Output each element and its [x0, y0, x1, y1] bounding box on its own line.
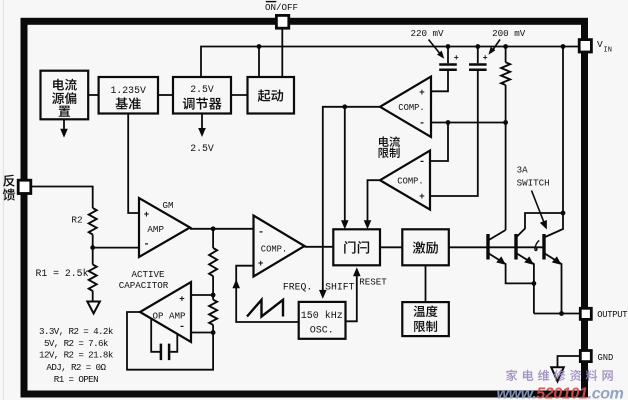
- svg-text:GND: GND: [598, 353, 614, 363]
- arrowhead bias down: [60, 129, 68, 138]
- svg-text:RESET: RESET: [359, 277, 387, 288]
- pin square GND: [580, 351, 591, 362]
- wire Vin rail: [201, 47, 584, 78]
- wire cap2 to comp2 + input: [430, 71, 478, 196]
- wire regulator to startup: [231, 94, 248, 96]
- junction node GM output: [211, 226, 216, 231]
- svg-text:2.5V: 2.5V: [190, 143, 214, 154]
- pin square OUTPUT: [580, 308, 591, 319]
- svg-text:-: -: [258, 227, 264, 239]
- block box: 150 kHz oscillator: [299, 302, 346, 339]
- junction node sense line resistor bottom: [503, 120, 508, 125]
- pin square feedback: [18, 180, 31, 193]
- wire Q3 emitter: [544, 253, 562, 314]
- svg-text:OSC.: OSC.: [310, 326, 334, 337]
- capacitor active feedback: [161, 344, 169, 361]
- junction node R2 R1 divider: [90, 245, 95, 250]
- svg-text:+: +: [419, 87, 425, 98]
- op-amp main comparator triangle: [254, 216, 305, 277]
- op-amp GM amplifier triangle: [139, 198, 190, 257]
- svg-text:R2: R2: [71, 215, 82, 226]
- svg-text:COMP.: COMP.: [397, 177, 423, 187]
- sawtooth waveform: [247, 300, 283, 317]
- svg-text:ACTIVE: ACTIVE: [131, 269, 165, 280]
- junction node rail switch collector: [561, 44, 566, 49]
- svg-text:-: -: [179, 321, 185, 333]
- junction node sense line comp2 branch: [446, 120, 451, 125]
- wire op-amp - input: [191, 332, 213, 334]
- label arrow line 220mV: [429, 40, 442, 56]
- junction node Q1 Q2 emitters: [532, 281, 537, 286]
- arrowhead 200mV label: [488, 47, 495, 55]
- svg-text:COMP.: COMP.: [261, 244, 287, 254]
- wire active capacitor left lead: [151, 319, 161, 352]
- svg-text:SWITCH: SWITCH: [517, 178, 550, 189]
- svg-text:SHIFT: SHIFT: [325, 282, 355, 293]
- arrowhead 2.5V down: [198, 128, 206, 137]
- arrowhead Q3 emitter: [552, 256, 562, 265]
- svg-text:220 mV: 220 mV: [410, 28, 444, 39]
- wire bias to reference: [88, 94, 98, 96]
- svg-text:3.3V, R2 = 4.2k: 3.3V, R2 = 4.2k: [39, 326, 114, 337]
- svg-text:+: +: [144, 209, 150, 220]
- junction node switch collectors: [561, 211, 566, 216]
- arrowhead Q2 emitter: [524, 256, 534, 265]
- svg-text:R1 = 2.5k: R1 = 2.5k: [36, 268, 89, 279]
- wire Q2 collector: [516, 213, 563, 238]
- block box: thermal limit: [402, 302, 449, 336]
- arrowhead 220mV label: [437, 51, 444, 59]
- transistor Q1 base bar: [486, 234, 489, 260]
- arrowhead comp2 to latch: [364, 220, 372, 229]
- svg-text:150 kHz: 150 kHz: [301, 310, 343, 322]
- wire Q2 emitter: [516, 253, 534, 314]
- svg-text:CAPACITOR: CAPACITOR: [119, 280, 169, 291]
- svg-text:+: +: [258, 258, 264, 269]
- block box: latch: [333, 229, 380, 265]
- svg-text:GM: GM: [162, 200, 173, 211]
- wire Q3 collector and rail connection: [544, 47, 563, 238]
- block box: 2.5V regulator: [173, 77, 231, 114]
- svg-text:+: +: [419, 191, 425, 202]
- capacitor offset 200mV: [469, 65, 487, 70]
- wire rail to startup: [258, 47, 260, 78]
- svg-text:-: -: [143, 239, 149, 251]
- wire GND pin to ground symbol: [558, 356, 581, 367]
- svg-text:-: -: [419, 118, 425, 130]
- arrowhead freq shift into oscillator: [319, 290, 327, 299]
- svg-text:激励: 激励: [412, 237, 438, 256]
- svg-text:限制: 限制: [413, 317, 438, 335]
- resistor R1: [89, 265, 97, 291]
- svg-text:限制: 限制: [378, 145, 401, 161]
- junction node op-amp - resistor chain: [211, 330, 216, 335]
- wire oscillator to main comparator + input: [236, 266, 299, 322]
- wire oscillator reset to latch: [346, 271, 357, 321]
- wire switch emitters to output pin: [534, 313, 580, 315]
- wire op-amp + input: [191, 294, 213, 296]
- junction node rail cap2: [475, 44, 480, 49]
- wire driver to switch bases: [449, 246, 544, 248]
- svg-text:+: +: [483, 53, 488, 63]
- transistor Q3 base bar: [542, 234, 545, 260]
- wire comp2 output to latch: [368, 180, 381, 225]
- wire GM output to main comparator: [190, 228, 254, 230]
- arrowhead 3A switch label: [540, 220, 547, 230]
- svg-text:FREQ.: FREQ.: [283, 282, 312, 293]
- wire bias arrow stem: [63, 119, 65, 131]
- svg-text:200 mV: 200 mV: [492, 28, 526, 39]
- svg-text:www.520101.com: www.520101.com: [497, 385, 624, 400]
- open arrowhead below R1: [87, 302, 100, 314]
- junction node rail sense resistor: [503, 44, 508, 49]
- svg-text:ADJ, R2 = 0Ω: ADJ, R2 = 0Ω: [46, 362, 106, 373]
- svg-text:OUTPUT: OUTPUT: [597, 310, 627, 320]
- transistor Q2 base bar: [514, 234, 517, 260]
- wire sense resistor to Q1 collector: [505, 85, 507, 230]
- wire feedback pin to divider: [31, 187, 93, 209]
- resistor compensation upper: [209, 248, 217, 276]
- junction node op-amp + resistor chain: [211, 293, 216, 298]
- svg-text:家电维修资料网: 家电维修资料网: [506, 366, 618, 384]
- wire latch to driver: [380, 246, 402, 248]
- wire driver to thermal limit: [425, 265, 427, 302]
- resistor compensation lower: [209, 300, 217, 325]
- pin square ON/OFF: [276, 15, 288, 28]
- junction node Q3 emitter output: [559, 311, 564, 316]
- block box: driver: [402, 229, 449, 265]
- wire cap1 to comp1 + input: [431, 71, 448, 91]
- wire R2 to R1 junction and GM - input: [93, 235, 139, 265]
- wire comp2 - input branch: [430, 123, 448, 162]
- svg-text:馈: 馈: [2, 184, 15, 203]
- svg-text:调节器: 调节器: [182, 94, 222, 113]
- wire reference to GM amp + input: [128, 114, 139, 214]
- transistor continuation squiggle: [535, 240, 539, 250]
- arrowhead comp1 to latch: [341, 220, 349, 229]
- block box: 1.235V reference: [99, 77, 158, 114]
- wire reference to regulator: [158, 94, 173, 96]
- wire ON/OFF pin to startup: [281, 28, 283, 77]
- svg-text:+: +: [179, 294, 185, 305]
- svg-text:V: V: [597, 39, 603, 50]
- svg-text:-: -: [419, 156, 425, 168]
- wire op-amp output loop: [127, 312, 213, 370]
- wire comp1 output to latch and freq shift: [323, 107, 380, 294]
- wire cap1 to rail: [447, 47, 449, 64]
- junction node rail cap1: [446, 44, 451, 49]
- svg-text:门闩: 门闩: [343, 237, 370, 257]
- svg-text:基准: 基准: [115, 94, 141, 113]
- label arrow line 3A switch: [532, 191, 546, 226]
- svg-text:5V, R2 = 7.6k: 5V, R2 = 7.6k: [44, 338, 109, 349]
- svg-text:ON/OFF: ON/OFF: [265, 2, 298, 13]
- wire active capacitor right lead: [169, 334, 177, 352]
- wire Q1 collector diagonal: [488, 230, 506, 241]
- svg-text:3A: 3A: [517, 164, 529, 175]
- junction node comp1 output branch: [342, 104, 347, 109]
- wire Q1 emitter: [488, 253, 534, 283]
- wire 2.5V arrow stem: [201, 114, 203, 131]
- arrowhead Q1 emitter: [496, 256, 506, 265]
- svg-text:IN: IN: [604, 47, 612, 55]
- block box: current source bias: [41, 71, 89, 120]
- wire sense resistor to rail: [505, 47, 507, 63]
- svg-text:R1 = OPEN: R1 = OPEN: [54, 374, 98, 385]
- svg-text:AMP: AMP: [147, 224, 164, 235]
- wire main comparator output to latch: [305, 246, 334, 248]
- resistor current sense: [501, 62, 510, 85]
- junction node on rail at regulator branch: [257, 44, 262, 49]
- wire compensation resistor chain: [212, 229, 214, 333]
- op-amp active capacitor op amp triangle: [140, 282, 191, 342]
- arrowhead reset into latch: [353, 267, 361, 276]
- svg-text:起动: 起动: [258, 85, 284, 104]
- svg-text:12V, R2 = 21.8k: 12V, R2 = 21.8k: [39, 350, 114, 361]
- svg-text:+: +: [454, 53, 459, 63]
- label arrow line 200mV: [491, 40, 500, 53]
- capacitor offset 220mV: [439, 65, 457, 70]
- wire R1 to open arrow: [92, 291, 94, 302]
- resistor R2: [89, 208, 97, 234]
- ground symbol: [551, 367, 564, 381]
- wire cap2 to rail: [477, 47, 479, 64]
- pin square VIN: [579, 40, 591, 52]
- arrowhead sawtooth into comparator: [232, 279, 240, 288]
- svg-text:置: 置: [58, 101, 71, 120]
- svg-text:COMP.: COMP.: [398, 103, 424, 113]
- op-amp current limit comparator 1 triangle: [380, 77, 431, 138]
- wire comp1 - input node: [431, 122, 506, 124]
- block box: startup: [248, 77, 295, 114]
- op-amp current limit comparator 2 triangle: [380, 151, 430, 210]
